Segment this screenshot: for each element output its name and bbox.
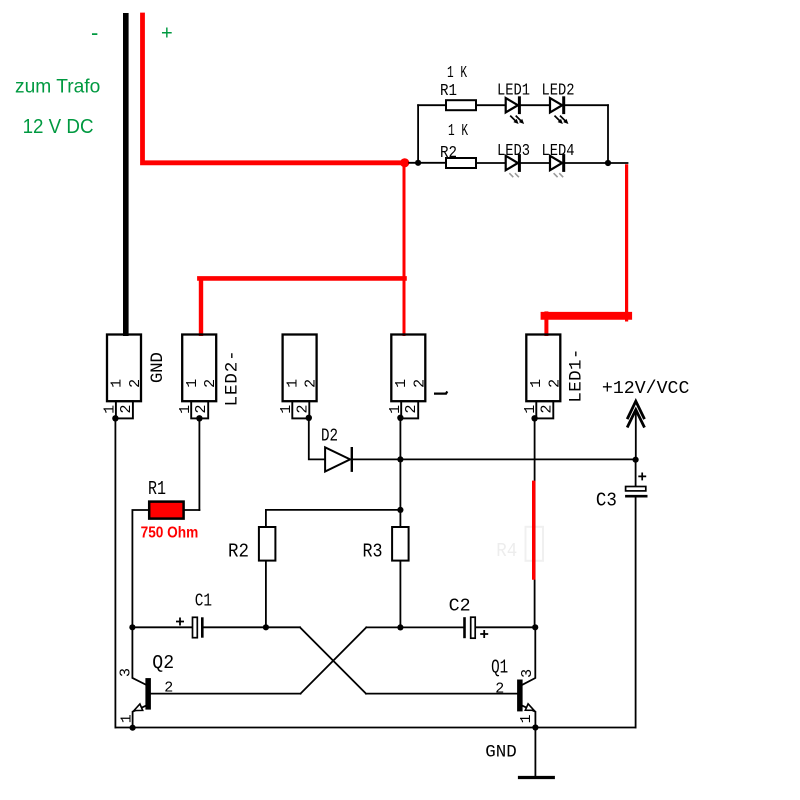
svg-text:2: 2 [403,404,420,413]
svg-text:Q1: Q1 [491,657,508,679]
wire R3 leads [399,510,401,627]
svg-text:1 K: 1 K [448,122,469,141]
svg-text:Q2: Q2 [152,652,174,674]
svg-text:2: 2 [294,404,311,413]
LED4 [550,156,564,177]
connector K5 LED1- [526,335,560,422]
resistor R3 body [392,527,409,561]
svg-text:2: 2 [546,379,563,388]
svg-text:LED3: LED3 [497,142,530,161]
power +12V/VCC arrow [627,401,644,460]
capacitor C3 [625,487,647,497]
svg-text:1: 1 [518,714,535,723]
transistor Q1 [517,627,535,727]
wire red supply from trafo [143,15,405,163]
svg-text:C3: C3 [596,490,617,512]
resistor R1 750 Ohm leads [132,510,199,627]
resistor R4 ghost (erased) [496,527,543,562]
label I (K4) [434,391,447,393]
wire C1 line [132,627,517,693]
resistor R1 750 Ohm body [149,502,183,519]
LED2 [550,98,568,124]
svg-text:3: 3 [519,669,536,678]
label C2 plus [480,630,488,638]
svg-text:LED4: LED4 [542,142,575,161]
svg-text:2: 2 [495,681,504,698]
wire K1 pin down left rail [114,418,116,727]
svg-text:GND: GND [485,742,517,762]
node red junction [400,158,409,167]
svg-text:D2: D2 [321,427,338,447]
svg-text:12 V DC: 12 V DC [23,116,94,138]
wire red thick bar to LED1- [545,312,629,320]
svg-text:2: 2 [164,680,173,697]
resistor R1 (1K) box [446,100,476,110]
svg-text:LED2-: LED2- [223,350,243,406]
svg-text:1: 1 [284,379,301,388]
wire vertical between rails left [417,105,419,163]
wire vertical between rails right [607,105,609,163]
svg-text:+: + [161,23,173,45]
wire bottom rail [115,727,635,729]
connector K1 GND [107,335,141,422]
svg-text:1: 1 [387,405,404,414]
svg-text:R3: R3 [363,541,383,563]
wire LED top rail [418,104,608,106]
svg-text:1: 1 [102,405,119,414]
svg-text:C1: C1 [195,592,212,612]
resistor R2 (1K) box [446,158,476,168]
label C1 plus [176,618,184,626]
svg-text:3: 3 [117,668,134,677]
svg-text:LED1-: LED1- [567,349,587,403]
wire C3 top lead [635,460,637,728]
wire red thick branch to LED2- [199,276,404,281]
wire LED1- pin down (black parts) [534,418,536,627]
svg-text:750 Ohm: 750 Ohm [141,525,199,542]
svg-text:1: 1 [119,714,136,723]
svg-text:2: 2 [303,379,320,388]
capacitor C2 [465,617,476,638]
svg-text:1 K: 1 K [447,64,468,83]
wire red vertical to connector K2 [199,278,203,336]
svg-text:-: - [91,20,98,45]
wire R2 bottom lead [265,561,267,628]
svg-text:R4: R4 [496,540,517,562]
svg-text:R2: R2 [440,144,457,163]
svg-text:LED1: LED1 [497,82,530,101]
LED1 [506,98,524,124]
connector K4 I [391,335,425,421]
LED3 [506,156,520,177]
wire LED bottom rail left stub [409,162,446,164]
wire red highlighted segment [532,481,535,580]
svg-text:1: 1 [522,405,539,414]
svg-text:2: 2 [538,404,555,413]
capacitor C1 [193,617,203,637]
svg-text:2: 2 [127,379,144,388]
svg-text:2: 2 [118,404,135,413]
ground symbol [518,728,555,778]
svg-text:R1: R1 [440,82,457,101]
svg-text:GND: GND [148,352,168,383]
svg-text:1: 1 [393,379,410,388]
transistor Q2 [132,627,151,727]
svg-text:+12V/VCC: +12V/VCC [602,378,690,399]
wire red vertical right of LED block [625,164,628,321]
wire LED bottom rail [446,162,628,164]
connector K2 LED2- [182,335,216,422]
wire K3 pin to D2 [309,418,325,460]
wire D2 cathode to VCC rail [353,458,636,460]
svg-text:1: 1 [177,405,194,414]
svg-text:zum Trafo: zum Trafo [15,77,100,98]
svg-text:2: 2 [193,404,210,413]
svg-text:2: 2 [411,379,428,388]
svg-text:C2: C2 [449,597,471,617]
svg-text:R2: R2 [228,541,249,563]
svg-text:1: 1 [184,379,201,388]
C3 plus sign [638,473,646,481]
node junction bottom rail right [605,160,611,166]
wire branch to R2 [266,510,401,527]
wire cross coupling B [151,627,535,693]
svg-text:1: 1 [109,379,126,388]
wire K2 pin down [198,418,200,510]
node junction bottom rail left [415,160,421,166]
svg-text:1: 1 [528,379,545,388]
svg-text:LED2: LED2 [542,82,575,101]
resistor R2 body [259,527,276,561]
svg-text:2: 2 [202,379,219,388]
wire red vertical to connector K4 [403,163,406,336]
svg-text:R1: R1 [148,478,166,500]
wire red stub into connector K5 [544,311,548,336]
wire K4 pin down through junction to R3 [399,418,401,510]
svg-text:1: 1 [278,405,295,414]
wire black supply from trafo [123,13,129,336]
connector K3 [283,335,317,421]
diode D2 [325,447,352,472]
node junctions [129,456,638,731]
